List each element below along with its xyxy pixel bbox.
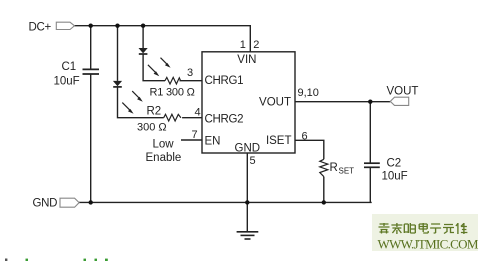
- svg-text:EN: EN: [205, 136, 221, 148]
- svg-text:VOUT: VOUT: [259, 97, 291, 109]
- wire C2 bottom: [369, 167, 371, 202]
- svg-text:SET: SET: [339, 167, 355, 176]
- resistor RSET: [320, 159, 328, 176]
- svg-text:WWW.JTMIC.COM: WWW.JTMIC.COM: [378, 237, 479, 252]
- svg-text:7: 7: [192, 129, 198, 141]
- svg-text:GND: GND: [33, 198, 58, 210]
- IC U1 box: [202, 52, 295, 153]
- svg-text:1: 1: [240, 39, 246, 51]
- resistor R1: [165, 77, 181, 84]
- wire C2 top: [369, 102, 371, 164]
- wire VOUT rail: [295, 101, 390, 103]
- wire RSET bottom: [323, 177, 325, 203]
- wire GND rail: [79, 201, 372, 203]
- svg-text:R1 300 Ω: R1 300 Ω: [150, 87, 195, 99]
- svg-text:4: 4: [195, 107, 201, 119]
- ground: [237, 232, 259, 239]
- svg-text:VOUT: VOUT: [387, 86, 419, 98]
- svg-text:9,10: 9,10: [298, 87, 319, 99]
- DC+ connector tag: [56, 22, 74, 29]
- svg-text:CHRG2: CHRG2: [205, 114, 244, 126]
- wire pin5 to ground: [246, 153, 248, 232]
- svg-text:VIN: VIN: [237, 54, 256, 66]
- svg-text:6: 6: [302, 131, 308, 143]
- wire C1 branch top: [90, 26, 92, 69]
- svg-text:Enable: Enable: [146, 152, 182, 164]
- GND connector tag: [60, 198, 79, 207]
- svg-text:GND: GND: [235, 143, 261, 155]
- svg-text:10uF: 10uF: [54, 76, 80, 88]
- wire R2 to pin 4: [182, 117, 202, 119]
- node junction dot vout: [368, 100, 372, 104]
- watermark chinese glyphs 嘉泰姆电子元件: [379, 223, 468, 234]
- wire EN stub: [181, 139, 202, 141]
- resistor R2: [164, 114, 181, 121]
- wire ISET to RSET: [295, 140, 324, 159]
- svg-text:C1: C1: [62, 61, 77, 73]
- svg-text:5: 5: [250, 155, 256, 167]
- node junction dots top rail: [89, 24, 146, 28]
- VOUT connector tag: [390, 97, 408, 105]
- svg-text:3: 3: [187, 67, 193, 79]
- svg-text:DC+: DC+: [29, 22, 52, 34]
- wire C1 branch bottom: [90, 74, 92, 202]
- LED D1: [139, 48, 171, 76]
- svg-text:R: R: [330, 162, 338, 174]
- svg-text:10uF: 10uF: [382, 171, 408, 183]
- bottom edge text fragments: [5, 259, 108, 261]
- svg-text:CHRG1: CHRG1: [205, 75, 244, 87]
- svg-text:2: 2: [253, 39, 259, 51]
- wire DC+ top rail: [75, 26, 251, 52]
- svg-text:C2: C2: [387, 158, 402, 170]
- watermark background tint: [372, 214, 478, 251]
- svg-text:ISET: ISET: [266, 135, 292, 147]
- LED D2: [113, 81, 143, 114]
- wire LED2 branch: [117, 26, 119, 81]
- wire R1 to pin 3: [180, 80, 203, 82]
- svg-text:300 Ω: 300 Ω: [137, 122, 167, 134]
- capacitor C1: [83, 69, 100, 74]
- svg-text:R2: R2: [147, 106, 162, 118]
- capacitor C2: [364, 163, 380, 167]
- wire LED1 branch: [142, 26, 144, 48]
- node junction dots gnd rail: [89, 200, 326, 204]
- svg-text:Low: Low: [153, 139, 175, 151]
